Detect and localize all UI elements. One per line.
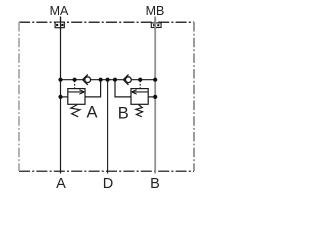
svg-text:B: B <box>150 176 160 190</box>
svg-text:A: A <box>86 103 97 121</box>
svg-text:MB: MB <box>146 4 165 18</box>
svg-text:MA: MA <box>50 4 69 18</box>
svg-text:D: D <box>103 176 113 190</box>
svg-text:B: B <box>118 104 129 122</box>
svg-text:A: A <box>56 176 66 190</box>
